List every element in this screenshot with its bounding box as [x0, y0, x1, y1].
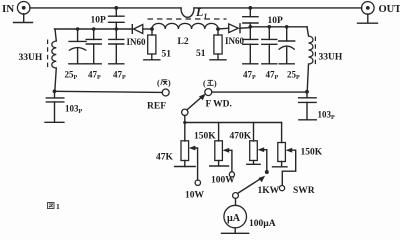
- switch S2 arrowhead: [258, 176, 265, 182]
- terminal SWR: [279, 186, 284, 191]
- node 1KW contact (dot): [265, 170, 269, 174]
- svg-text:(: (: [203, 79, 206, 88]
- wire distribution bus: [185, 122, 282, 124]
- coupling dashed line: [148, 18, 227, 20]
- wiper VR2: [223, 148, 232, 172]
- node dot: [92, 27, 96, 31]
- capacitor C1 10P: [109, 16, 124, 22]
- node dot: [115, 27, 119, 31]
- ground (OUT): [358, 14, 378, 23]
- svg-text:REF: REF: [147, 102, 166, 112]
- diode D1 IN60: [132, 25, 152, 34]
- svg-text:1: 1: [56, 202, 60, 211]
- svg-text:47K: 47K: [156, 153, 174, 163]
- capacitor C2 10P: [243, 17, 258, 23]
- potentiometer VR4 150K: [278, 123, 286, 167]
- switch S1 pivot: [182, 109, 188, 115]
- svg-text:150K: 150K: [301, 148, 323, 158]
- diode D2 IN60: [218, 24, 250, 33]
- svg-text:10W: 10W: [185, 191, 205, 201]
- capacitor C5 25p variable: [279, 27, 295, 64]
- resistor R2 51: [214, 29, 222, 60]
- capacitor C3 47p: [243, 27, 258, 64]
- core dashed (L3): [47, 40, 49, 69]
- node B (dot): [216, 27, 220, 31]
- svg-text:10P: 10P: [268, 16, 284, 26]
- ground (C4): [262, 63, 277, 65]
- ground (C9): [45, 121, 64, 123]
- ground (R1): [144, 59, 160, 61]
- ground (C10): [299, 119, 316, 121]
- svg-text:IN60: IN60: [225, 36, 245, 46]
- wire pivot to bus: [184, 116, 186, 123]
- wiper VR3: [258, 147, 267, 172]
- capacitor C9 103p: [46, 91, 64, 122]
- switch S1 arrowhead: [199, 94, 206, 101]
- potentiometer VR1 47K: [181, 123, 189, 167]
- inductor L4 33UH right: [307, 27, 313, 92]
- ground (VR1): [175, 166, 196, 168]
- terminal FWD: [205, 89, 212, 96]
- svg-text:51: 51: [162, 50, 172, 60]
- svg-text:51: 51: [196, 49, 206, 59]
- svg-text:OUT: OUT: [379, 4, 400, 15]
- wire pivot to meter: [235, 198, 237, 205]
- switch S2 arm: [238, 178, 262, 193]
- node tap left (dot): [114, 6, 118, 10]
- svg-text:L2: L2: [178, 37, 189, 47]
- wire: [249, 8, 251, 17]
- ground (VR3): [247, 163, 260, 165]
- wire: [115, 8, 117, 16]
- capacitor C8 47p: [109, 29, 124, 64]
- capacitor C7 47p: [86, 29, 101, 64]
- ground (IN): [14, 14, 33, 23]
- terminal REF: [162, 89, 169, 96]
- node dot: [249, 25, 253, 29]
- ground (C3): [243, 63, 258, 65]
- wire top line left: [30, 7, 181, 9]
- svg-text:470K: 470K: [230, 132, 252, 142]
- ground (meter): [222, 228, 249, 233]
- ground (R2): [210, 59, 226, 61]
- ground (VR4): [273, 166, 288, 168]
- svg-text:150K: 150K: [194, 132, 216, 142]
- switch S2 pivot: [233, 193, 239, 199]
- node dot: [285, 25, 289, 29]
- wiper VR4 hook to SWR: [282, 148, 295, 185]
- inductor L3 33UH left: [52, 29, 57, 91]
- svg-text:1KW: 1KW: [258, 186, 280, 196]
- caption 图1: [48, 202, 61, 211]
- wire: [249, 23, 251, 27]
- node dot: [268, 25, 272, 29]
- potentiometer VR3 470K: [250, 123, 258, 165]
- node A (dot): [150, 27, 154, 31]
- svg-text:100W: 100W: [211, 176, 235, 186]
- terminal 100W: [229, 172, 234, 177]
- ground (C5): [279, 63, 294, 65]
- terminal 10W: [195, 180, 200, 185]
- wiper VR1: [189, 146, 198, 180]
- inductor L2: [152, 23, 218, 29]
- node dot: [183, 121, 186, 124]
- svg-text:): ): [168, 79, 171, 88]
- wire right bus: [250, 26, 307, 28]
- svg-text:SWR: SWR: [293, 186, 315, 196]
- label (反): [157, 79, 171, 88]
- wire: [115, 22, 117, 29]
- meter M1: [224, 205, 247, 228]
- capacitor C6 25p variable: [69, 29, 87, 64]
- svg-text:µA: µA: [227, 213, 241, 224]
- svg-text:33UH: 33UH: [19, 53, 43, 63]
- wire lower bus left: [55, 91, 162, 92]
- capacitor C10 103p: [299, 92, 317, 120]
- node tap right (dot): [248, 6, 252, 10]
- wire FWD to right column: [212, 91, 307, 93]
- node dot lower left: [53, 89, 57, 93]
- svg-text:F WD.: F WD.: [206, 100, 232, 110]
- wire left bus: [55, 28, 133, 30]
- node dot: [76, 27, 80, 31]
- label (正): [203, 79, 217, 88]
- node dot lower right: [305, 90, 309, 94]
- svg-text:IN: IN: [2, 3, 14, 15]
- svg-text:(: (: [157, 79, 160, 88]
- ground (C7): [86, 63, 101, 65]
- svg-text:10P: 10P: [91, 16, 107, 26]
- svg-text:IN60: IN60: [127, 37, 147, 47]
- potentiometer VR2 150K: [215, 123, 223, 167]
- svg-text:): ): [214, 79, 217, 88]
- ground (C6): [69, 63, 86, 65]
- resistor R1 51: [148, 29, 156, 60]
- wire top line right: [194, 7, 362, 9]
- pickup loop L1: [181, 8, 194, 17]
- switch S1 arm: [187, 96, 203, 110]
- svg-text:33UH: 33UH: [319, 53, 343, 63]
- connector J1 IN: [17, 2, 30, 15]
- connector J2 OUT: [362, 2, 375, 15]
- ground (C8): [109, 63, 124, 65]
- svg-text:100µA: 100µA: [249, 219, 276, 229]
- ground (VR2): [210, 165, 229, 167]
- capacitor C4 47p: [262, 27, 277, 64]
- core dashed (L4): [314, 37, 316, 66]
